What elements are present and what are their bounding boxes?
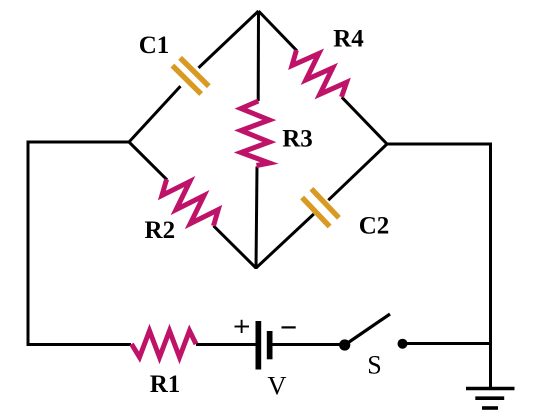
resistor R3: [241, 101, 269, 166]
wire left horizontal from left node to left rail: [28, 141, 129, 144]
wire upper-right arm lower segment: R4 to right node: [342, 97, 387, 144]
label C2: [359, 213, 390, 240]
wire bottom left from rail to R1: [27, 343, 132, 346]
label R3: [282, 126, 313, 153]
label R4: [333, 26, 364, 53]
wire right vertical rail down to ground: [489, 143, 492, 389]
svg-text:R3: R3: [282, 126, 313, 153]
wire from R1 to battery positive plate: [196, 343, 256, 346]
wire lower-right arm lower segment: C2 to bottom node: [256, 214, 314, 268]
label V: [267, 370, 286, 400]
svg-text:V: V: [267, 370, 286, 400]
label C1: [139, 32, 170, 59]
battery V positive plate: [256, 321, 262, 370]
wire upper-left arm upper segment: C1 to top node: [199, 11, 259, 68]
wire upper-left arm lower segment: left node to C1: [129, 86, 181, 142]
wire lower-right arm upper segment: right node to C2: [328, 144, 387, 200]
battery polarity label +: [235, 320, 250, 333]
ground: [466, 389, 515, 409]
capacitor C2: [302, 189, 339, 227]
svg-text:S: S: [367, 350, 381, 379]
svg-text:C2: C2: [359, 213, 390, 240]
wire lower-left arm lower segment: R2 to bottom node: [214, 226, 257, 268]
wire from switch to right rail: [403, 342, 492, 345]
resistor R4: [292, 50, 347, 97]
svg-text:C1: C1: [139, 32, 170, 59]
wire top right horizontal from right node to right rail: [387, 143, 492, 146]
wire middle vertical upper segment: top node to R3: [257, 11, 260, 101]
switch S lever: [345, 314, 390, 345]
wire lower-left arm upper segment: left node to R2: [129, 142, 167, 180]
capacitor C1: [172, 58, 208, 94]
battery polarity label &#8722;: [282, 326, 296, 328]
wire left vertical rail: [27, 141, 30, 347]
label R1: [150, 371, 181, 398]
resistor R1: [132, 331, 197, 357]
resistor R2: [162, 179, 218, 226]
svg-text:R1: R1: [150, 371, 181, 398]
svg-text:R4: R4: [333, 26, 364, 53]
svg-text:R2: R2: [145, 217, 176, 244]
label S: [367, 350, 381, 379]
switch S right contact: [398, 339, 408, 349]
switch S left contact: [339, 339, 350, 350]
wire upper-right arm upper segment: top node to R4: [259, 11, 297, 51]
wire middle vertical lower segment: R3 to bottom node: [256, 167, 257, 270]
battery V negative plate: [267, 331, 273, 359]
label R2: [145, 217, 176, 244]
wire from battery negative plate to switch: [272, 343, 345, 346]
